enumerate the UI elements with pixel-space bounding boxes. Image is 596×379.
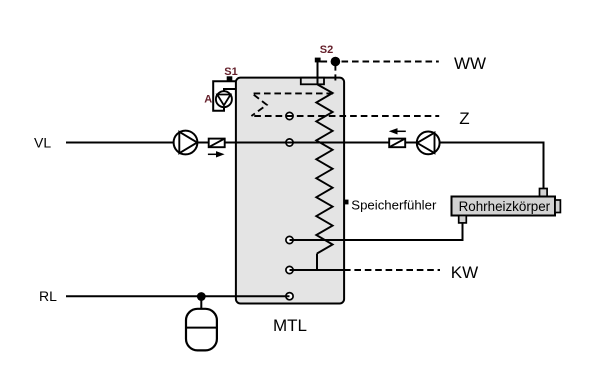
- node heater return port: [286, 236, 293, 243]
- svg-text:VL: VL: [34, 135, 51, 151]
- coil corrugated heat exchanger: [316, 85, 332, 254]
- node RL junction dot: [197, 292, 206, 301]
- check valve VL: [209, 139, 225, 148]
- svg-text:S1: S1: [224, 66, 237, 78]
- arrow Z flow direction: [397, 130, 406, 132]
- wire Z dashed line: [251, 115, 439, 117]
- expansion vessel membrane line: [186, 327, 217, 329]
- heater Rohrheizkoerper body: [452, 197, 556, 216]
- arrow VL flow direction: [208, 153, 218, 155]
- svg-text:RL: RL: [39, 288, 57, 304]
- wire KW dashed line: [344, 269, 440, 271]
- svg-text:MTL: MTL: [273, 316, 307, 335]
- wire WW dashed riser: [334, 64, 336, 81]
- svg-text:WW: WW: [454, 54, 486, 73]
- pump loop A piping: [213, 81, 236, 111]
- svg-text:Rohrheizkörper: Rohrheizkörper: [459, 199, 551, 214]
- pump Z: [417, 132, 440, 155]
- pump loop A upper connection: [224, 89, 237, 93]
- svg-text:Z: Z: [459, 109, 469, 128]
- heater Rohrheizkoerper top pin: [540, 189, 548, 197]
- svg-text:S2: S2: [320, 44, 333, 56]
- node VL port: [286, 139, 293, 146]
- sensor S1 square: [227, 76, 233, 80]
- svg-text:A: A: [204, 94, 212, 106]
- svg-text:KW: KW: [451, 263, 478, 282]
- pump A: [216, 91, 232, 107]
- wire coil-top dashed link: [251, 93, 333, 116]
- node KW port: [286, 266, 293, 273]
- sensor S2 square: [315, 58, 321, 63]
- sensor Speicherfuehler square: [344, 200, 349, 205]
- tank top flange notch: [301, 78, 324, 85]
- wire RL horizontal line: [66, 295, 290, 297]
- check valve Z: [389, 139, 405, 148]
- node Z port: [286, 112, 293, 119]
- wire VL main horizontal line: [66, 142, 544, 144]
- node WW junction dot: [331, 57, 341, 67]
- wire KW port to tank edge: [290, 269, 345, 271]
- pump VL: [174, 131, 198, 155]
- wire vessel stub: [200, 297, 202, 310]
- expansion vessel: [186, 309, 217, 351]
- svg-text:Speicherfühler: Speicherfühler: [351, 197, 437, 212]
- tank MTL body: [236, 78, 344, 304]
- wire right riser to heater: [543, 142, 545, 190]
- wire sensor S2 dip tube: [317, 62, 319, 86]
- node RL port: [286, 293, 293, 300]
- wire heater return to tank port: [290, 223, 463, 241]
- wire coil bottom drop: [316, 254, 318, 271]
- heater Rohrheizkoerper bottom pin: [459, 216, 467, 223]
- wire WW dashed: [321, 61, 439, 63]
- heater Rohrheizkoerper right cap: [555, 200, 560, 213]
